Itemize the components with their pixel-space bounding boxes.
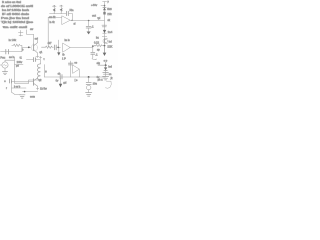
stepped wire from battery to Q1	[27, 30, 34, 44]
svg-text:cw: cw	[30, 28, 33, 31]
wire C5 to node	[56, 46, 60, 48]
capacitor C2	[86, 26, 91, 31]
node base junction	[28, 46, 30, 48]
ground below V1	[2, 72, 7, 75]
wire junction down right	[88, 77, 90, 82]
wire arrow below bus	[60, 79, 62, 84]
resistor R1 (top, vertical)	[53, 5, 57, 14]
transistor Q3	[103, 38, 108, 44]
transistor Q1	[31, 40, 38, 57]
node U1 apex junction	[71, 20, 72, 21]
marks on rail lower	[102, 36, 107, 38]
emitter resistor marks Q2	[36, 88, 38, 90]
wire R6 to junction	[21, 46, 23, 52]
emitter marks Q1	[36, 55, 39, 57]
plus tick C7	[39, 56, 41, 59]
resistor R6 horizontal	[12, 44, 22, 46]
wire into coil	[40, 60, 42, 64]
node out2 junction	[92, 45, 94, 47]
svg-text:ba bf 13Rls lash: ba bf 13Rls lash	[2, 8, 30, 12]
trimmer sym below C6	[92, 58, 97, 59]
arrowhead below bus	[59, 84, 62, 88]
node bl	[24, 91, 26, 93]
wire left into node	[98, 64, 105, 66]
svg-text:sm 1k: sm 1k	[49, 16, 56, 19]
wire bottom left to coil	[15, 82, 29, 84]
wire top node	[50, 13, 67, 15]
right branch vertical	[105, 62, 107, 76]
vertical wire bottom-left	[11, 81, 13, 92]
wire out2 down	[92, 46, 94, 52]
core line	[43, 65, 45, 78]
svg-text:+40v: +40v	[91, 3, 98, 7]
node output junction	[88, 20, 90, 22]
second stage input wire	[42, 46, 46, 48]
wire to Q2 base	[12, 81, 34, 83]
svg-text:com: com	[30, 96, 35, 99]
node rail mid junction	[104, 45, 106, 47]
resistor R2 (top, vertical)	[60, 5, 64, 14]
wire C9 to ground	[88, 90, 90, 92]
svg-text:r: r	[6, 86, 7, 90]
svg-text:lm ic: lm ic	[65, 39, 71, 42]
op-amp U3	[73, 65, 80, 77]
capacitor C1	[66, 11, 72, 20]
svg-text:in 10k: in 10k	[9, 38, 17, 42]
diode D2 on rail	[103, 30, 106, 33]
svg-text:ta aft asl: ta aft asl	[3, 25, 28, 29]
tick wire right	[15, 64, 23, 66]
wire coil bottom	[29, 80, 41, 83]
wire U1 output to rail	[70, 19, 104, 21]
svg-text:ph x: ph x	[98, 77, 104, 81]
ground bottom-left	[19, 95, 25, 98]
rail top tick	[103, 1, 107, 3]
node stage2 junction	[57, 46, 59, 48]
capacitor C4	[6, 49, 9, 54]
zener D1 on rail	[103, 7, 106, 10]
arrowhead rail bottom	[103, 53, 107, 56]
cap marks left of vertical bl	[10, 79, 12, 83]
AC source V1	[0, 62, 8, 68]
ground below C9	[86, 93, 92, 97]
transistor Q2	[34, 78, 38, 90]
svg-text:4k7: 4k7	[48, 42, 53, 45]
wire coil top	[26, 59, 33, 61]
svg-text:22K: 22K	[107, 45, 112, 49]
diode D3 right branch	[104, 67, 107, 70]
node rail top junction	[104, 5, 106, 7]
svg-text:Tjk bj 10R8d [jse: Tjk bj 10R8d [jse	[1, 20, 34, 24]
wire input line	[1, 51, 23, 53]
capacitor C3 plate on rail	[102, 25, 107, 27]
svg-text:1 P: 1 P	[62, 56, 66, 60]
svg-text:bd: bd	[109, 39, 113, 43]
wire V1 bottom	[4, 68, 6, 71]
capacitor C9	[86, 82, 91, 84]
capacitor C8	[68, 63, 73, 65]
wire inverting input	[48, 17, 61, 19]
svg-text:5k6: 5k6	[107, 7, 112, 11]
electrolytic circle C9	[87, 85, 91, 89]
svg-text:led: led	[108, 64, 112, 68]
main bottom bus	[44, 76, 105, 78]
wire junction down	[88, 21, 90, 26]
wire second bl	[12, 87, 27, 89]
capacitor C5	[54, 45, 56, 50]
svg-text:Rla: Rla	[70, 8, 74, 12]
svg-text:0.22: 0.22	[94, 40, 100, 44]
wire out2 to R4	[93, 45, 96, 47]
vertical into U3	[70, 61, 72, 77]
svg-text:10u: 10u	[93, 82, 98, 86]
svg-text:pri: pri	[16, 64, 19, 68]
svg-text:1n4: 1n4	[108, 30, 113, 34]
svg-text:1k 5w: 1k 5w	[40, 87, 47, 91]
op-amp U1	[49, 16, 70, 25]
jack hook symbol	[105, 81, 111, 88]
svg-text:R ados an 3ml: R ados an 3ml	[2, 0, 22, 4]
capacitor C6	[91, 52, 95, 58]
node right branch	[105, 64, 107, 66]
svg-text:out: out	[92, 14, 96, 18]
inductor L1 winding	[37, 64, 40, 80]
svg-text:tr: tr	[45, 70, 47, 74]
svg-text:tpl: tpl	[98, 17, 101, 20]
capacitor C7 electrolytic	[34, 58, 41, 62]
wire tick left of node	[101, 5, 104, 7]
resistor R7 horizontal	[46, 46, 54, 48]
svg-text:b w b: b w b	[14, 85, 21, 89]
ground below C2	[87, 32, 91, 35]
svg-text:IF afl S3bl dmls: IF afl S3bl dmls	[2, 12, 30, 16]
svg-text:ds af L38SCE an3l: ds af L38SCE an3l	[1, 4, 34, 8]
primary vertical wire	[14, 57, 16, 83]
wire node down arrow	[58, 48, 60, 53]
svg-text:in 4k: in 4k	[50, 21, 56, 24]
svg-text:Pva jbs fm bnd: Pva jbs fm bnd	[1, 16, 30, 20]
resistor R3 on rail	[103, 12, 105, 15]
svg-text:22k: 22k	[107, 12, 112, 16]
svg-text:ac in: ac in	[9, 55, 15, 59]
power rail vertical	[104, 2, 106, 53]
wire down from above into node	[58, 40, 60, 47]
svg-text:sig: sig	[97, 61, 101, 65]
wire V1 top	[5, 60, 14, 62]
wire rail down arrow	[104, 46, 106, 53]
component on bus	[60, 75, 62, 79]
wire feedback vertical	[47, 17, 49, 47]
wire bl lower bus	[22, 91, 37, 93]
node bus junction right	[88, 76, 90, 78]
capacitor C10	[103, 72, 109, 74]
resistor R4 horizontal	[94, 44, 104, 46]
ground right branch	[103, 76, 109, 80]
arrowhead below node	[57, 52, 60, 55]
wire U2 output	[70, 47, 93, 49]
svg-text:240v: 240v	[17, 60, 23, 64]
svg-text:Psu: Psu	[0, 56, 5, 60]
battery sym mid-left	[18, 30, 23, 36]
op-amp U2	[63, 43, 70, 52]
wire junction to base	[22, 46, 31, 48]
diagonal to ground bl	[12, 92, 21, 94]
